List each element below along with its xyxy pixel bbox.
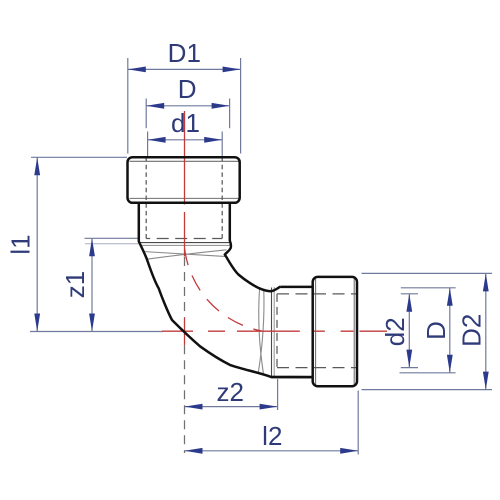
extension line D1 right [240, 58, 242, 154]
extension line D2 bottom [362, 389, 493, 391]
arrow d1 right [204, 137, 222, 143]
arrow l1 top [34, 157, 40, 175]
fitting outline [128, 157, 358, 386]
hidden stop line top socket [146, 238, 222, 240]
arrow D1 left [128, 67, 146, 73]
arrows [34, 67, 488, 454]
bore hidden dash line d2 top [277, 293, 358, 295]
dim line D top [146, 105, 229, 107]
gray centerline dashes lower [184, 345, 186, 453]
red centerline vertical [184, 111, 186, 257]
dim line z2 [185, 406, 278, 408]
svg-text:l2: l2 [262, 421, 282, 451]
bell2 (right socket bell) [313, 277, 357, 386]
svg-text:l1: l1 [6, 234, 36, 254]
arrow D2 bottom [483, 372, 489, 390]
red centerline bend arc [185, 249, 262, 331]
dim line D2 [485, 273, 487, 389]
extension line d2 bottom [401, 367, 418, 369]
extension line z1 top [85, 237, 140, 239]
arrow l1 bottom [34, 314, 40, 332]
dim line l2 [185, 450, 359, 452]
svg-text:z1: z1 [60, 271, 90, 298]
right socket top edge [280, 286, 313, 289]
arrow D top right [212, 103, 230, 109]
bell1 (top socket bell) [128, 157, 240, 203]
extension line l1 top [31, 156, 127, 158]
bore hidden dash line d1 right [221, 158, 223, 239]
extension line d1 right [221, 132, 223, 158]
red centerline cross tick [184, 318, 186, 345]
extension line D right bottom [400, 372, 456, 374]
arrow z1 bottom [89, 314, 95, 332]
dim line z1 [91, 238, 93, 331]
bell1 chamfer lines [130, 161, 355, 385]
arrow z2 left [185, 404, 203, 410]
svg-text:z2: z2 [216, 377, 243, 407]
arrow z1 top [89, 238, 95, 256]
socket end double line right socket [271, 288, 273, 377]
top socket body left edge + outer bend [139, 204, 313, 378]
arrow d2 bottom [406, 350, 412, 368]
svg-text:d2: d2 [380, 317, 410, 346]
extension line D top left [145, 99, 147, 129]
bore hidden dash line d1 left [145, 158, 147, 239]
arrow D1 right [223, 67, 241, 73]
extension line D1 left [127, 58, 129, 154]
dim line d2 [408, 294, 410, 368]
arrow l2 right [340, 448, 358, 454]
extension line l2 right [357, 391, 359, 455]
bell2 chamfer lines [315, 279, 317, 386]
socket end double line top socket [140, 242, 231, 244]
arrow D right bottom [447, 355, 453, 373]
extension line D top right [229, 99, 231, 129]
dim line D right [449, 288, 451, 373]
right socket bottom edge [271, 376, 313, 379]
top socket body right edge + inner bend [225, 204, 280, 292]
dim line l1 [36, 157, 38, 331]
arrow D top left [146, 103, 164, 109]
arrow D2 top [483, 273, 489, 291]
arrow z2 right [260, 404, 278, 410]
wrinkle lines top socket [140, 243, 275, 377]
arrow D right top [447, 288, 453, 306]
svg-text:D: D [421, 321, 451, 340]
svg-text:d1: d1 [171, 108, 200, 138]
extension line D right top [401, 287, 456, 289]
gray centerline dashes upper [184, 257, 186, 318]
arrow l2 left [185, 448, 203, 454]
red centerline horizontal [162, 330, 387, 332]
extension line centerline left [30, 331, 163, 333]
extension line d1 left [147, 132, 149, 158]
dim line D1 [128, 68, 241, 70]
svg-text:D2: D2 [456, 314, 486, 347]
svg-text:D: D [178, 74, 197, 104]
svg-text:D1: D1 [168, 38, 201, 68]
wrinkle lines right socket [259, 290, 264, 375]
arrow d1 left [148, 137, 166, 143]
hidden stop line right socket [276, 294, 278, 368]
bore hidden dash line d2 bottom [277, 367, 358, 369]
fitting body fill [139, 203, 313, 377]
extension line d2 top [401, 293, 418, 295]
dim line d1 [148, 139, 223, 141]
arrow d2 top [406, 294, 412, 312]
extension line z1 top secondary [85, 243, 139, 245]
extension line z2 right [277, 379, 279, 410]
extension line D2 top [362, 272, 493, 274]
